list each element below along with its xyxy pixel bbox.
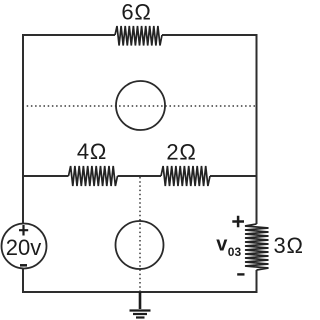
svg-text:v: v	[216, 234, 228, 256]
dotted mesh line horizontal	[23, 105, 257, 107]
wire bottom loop	[23, 269, 257, 293]
wire middle right	[210, 175, 257, 177]
resistor R 6ohm	[115, 26, 162, 46]
svg-text:4Ω: 4Ω	[77, 139, 107, 164]
svg-text:03: 03	[228, 245, 242, 259]
ground stub	[139, 292, 142, 309]
resistor R 3ohm	[245, 224, 269, 270]
source plus sign	[19, 225, 28, 236]
resistor R 4ohm	[69, 166, 118, 186]
mesh circle bottom	[116, 221, 164, 269]
ground bar 2	[133, 313, 147, 315]
svg-text:20v: 20v	[6, 235, 41, 260]
wire middle center	[118, 175, 162, 177]
svg-text:3Ω: 3Ω	[274, 233, 304, 258]
ground bar 1	[130, 309, 151, 311]
minus sign v03	[237, 273, 244, 275]
wire middle left	[23, 175, 69, 177]
mesh circle top	[116, 81, 165, 130]
voltage source V1 20v circle	[2, 224, 47, 269]
dotted mesh line vertical	[139, 177, 141, 291]
wire top left segment	[23, 35, 115, 224]
ground bar 3	[136, 316, 145, 318]
plus sign v03	[232, 216, 244, 228]
resistor R 2ohm	[161, 166, 210, 186]
source minus sign	[20, 264, 27, 267]
svg-text:6Ω: 6Ω	[121, 0, 151, 25]
wire top right segment	[162, 35, 257, 224]
svg-text:2Ω: 2Ω	[166, 140, 196, 165]
